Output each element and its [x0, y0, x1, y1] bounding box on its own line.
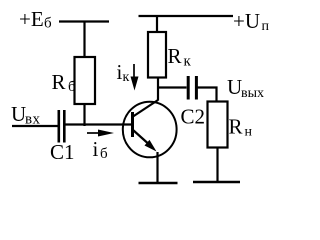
wire Rб bottom lead to base node [83, 104, 85, 126]
svg-text:б: б [100, 146, 108, 162]
svg-text:п: п [262, 19, 270, 34]
svg-text:R: R [52, 70, 66, 94]
label +Eб (base supply) [19, 7, 52, 32]
wire Rн bottom lead [216, 148, 218, 183]
current arrow iк [131, 64, 139, 91]
wire emitter lead down [156, 152, 158, 183]
svg-text:C2: C2 [181, 105, 206, 129]
svg-text:к: к [123, 70, 130, 85]
wire Rк top lead [156, 16, 158, 32]
transistor base bar [131, 112, 134, 137]
ground under Rн [193, 181, 240, 184]
label Rк [168, 44, 192, 70]
wire collector node to C2 [158, 86, 187, 88]
svg-text:+E: +E [19, 7, 44, 31]
svg-text:б: б [68, 79, 76, 95]
svg-text:C1: C1 [50, 140, 75, 164]
resistor R_б [75, 57, 96, 104]
resistor R_к [148, 32, 166, 78]
label Rб [52, 70, 77, 95]
transistor collector lead [133, 100, 158, 117]
svg-text:+U: +U [233, 9, 260, 33]
wire top-right rail [139, 15, 234, 17]
transistor body circle [123, 102, 177, 158]
label Uвых (output voltage) [227, 75, 264, 101]
label iк [117, 60, 130, 85]
label +Uп (collector supply) [233, 9, 270, 34]
svg-text:б: б [44, 16, 52, 32]
transistor emitter lead with arrow [133, 130, 152, 147]
transistor VT1 (NPN) [123, 100, 177, 157]
svg-text:U: U [227, 75, 242, 99]
svg-text:вых: вых [241, 86, 264, 101]
resistor R_н (load) [208, 102, 228, 148]
wire Rб top lead [83, 22, 85, 58]
wire top-left rail [59, 20, 109, 22]
svg-text:R: R [229, 115, 243, 139]
svg-text:к: к [184, 54, 192, 70]
label iб [93, 137, 109, 162]
svg-text:i: i [93, 137, 99, 161]
current arrow iб [87, 130, 114, 137]
wire base segment (C1 to transistor base) [66, 123, 132, 125]
svg-text:U: U [11, 102, 26, 126]
wire collector vertical (circle to Rк) [157, 78, 159, 101]
wire C2 to Rн [198, 88, 217, 102]
ground under emitter [139, 182, 178, 185]
capacitor C2 [188, 76, 196, 100]
wire input segment [12, 125, 58, 127]
svg-text:н: н [245, 125, 253, 140]
capacitor C1 [59, 110, 65, 143]
svg-text:R: R [168, 44, 182, 68]
label Rн [229, 115, 253, 140]
label Uвх (input voltage) [11, 102, 40, 128]
